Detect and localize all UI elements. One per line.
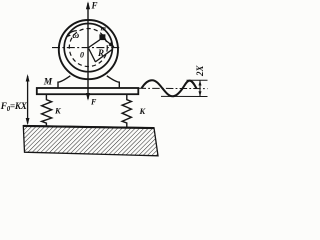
crank side to rim xyxy=(95,49,112,62)
paper background xyxy=(0,0,212,162)
dimension tick top xyxy=(187,79,208,81)
omega rotation arrow xyxy=(68,31,77,35)
arrow m to rim xyxy=(105,40,111,45)
arrow F down xyxy=(86,93,90,101)
crank side 0 down xyxy=(89,49,96,62)
vibration wave xyxy=(142,80,197,96)
svg-text:ω: ω xyxy=(72,31,79,41)
rotor path dashed circle xyxy=(69,29,107,67)
arrow F up xyxy=(86,1,90,9)
svg-text:F: F xyxy=(90,98,97,107)
right spring K xyxy=(122,94,131,127)
unbalanced mass m (square) xyxy=(99,34,105,40)
dimension tick bottom xyxy=(161,95,208,97)
radius line 0 to m xyxy=(88,40,99,48)
motor inner circle xyxy=(64,23,112,71)
svg-text:0: 0 xyxy=(80,50,84,59)
force line F (vertical) xyxy=(87,3,89,99)
plate M (slab) xyxy=(37,88,139,94)
motor pedestal xyxy=(58,76,119,88)
left spring K xyxy=(42,94,52,126)
svg-text:F: F xyxy=(91,0,98,10)
horizontal centerline xyxy=(52,47,120,49)
svg-text:R: R xyxy=(97,48,104,58)
dimension line 2X xyxy=(199,80,201,96)
svg-text:m: m xyxy=(101,26,106,33)
motor outer circle xyxy=(59,20,118,79)
left dimension arrow xyxy=(27,76,29,124)
svg-text:2X: 2X xyxy=(195,65,205,78)
svg-text:M: M xyxy=(43,78,53,88)
wave centerline xyxy=(139,87,208,89)
